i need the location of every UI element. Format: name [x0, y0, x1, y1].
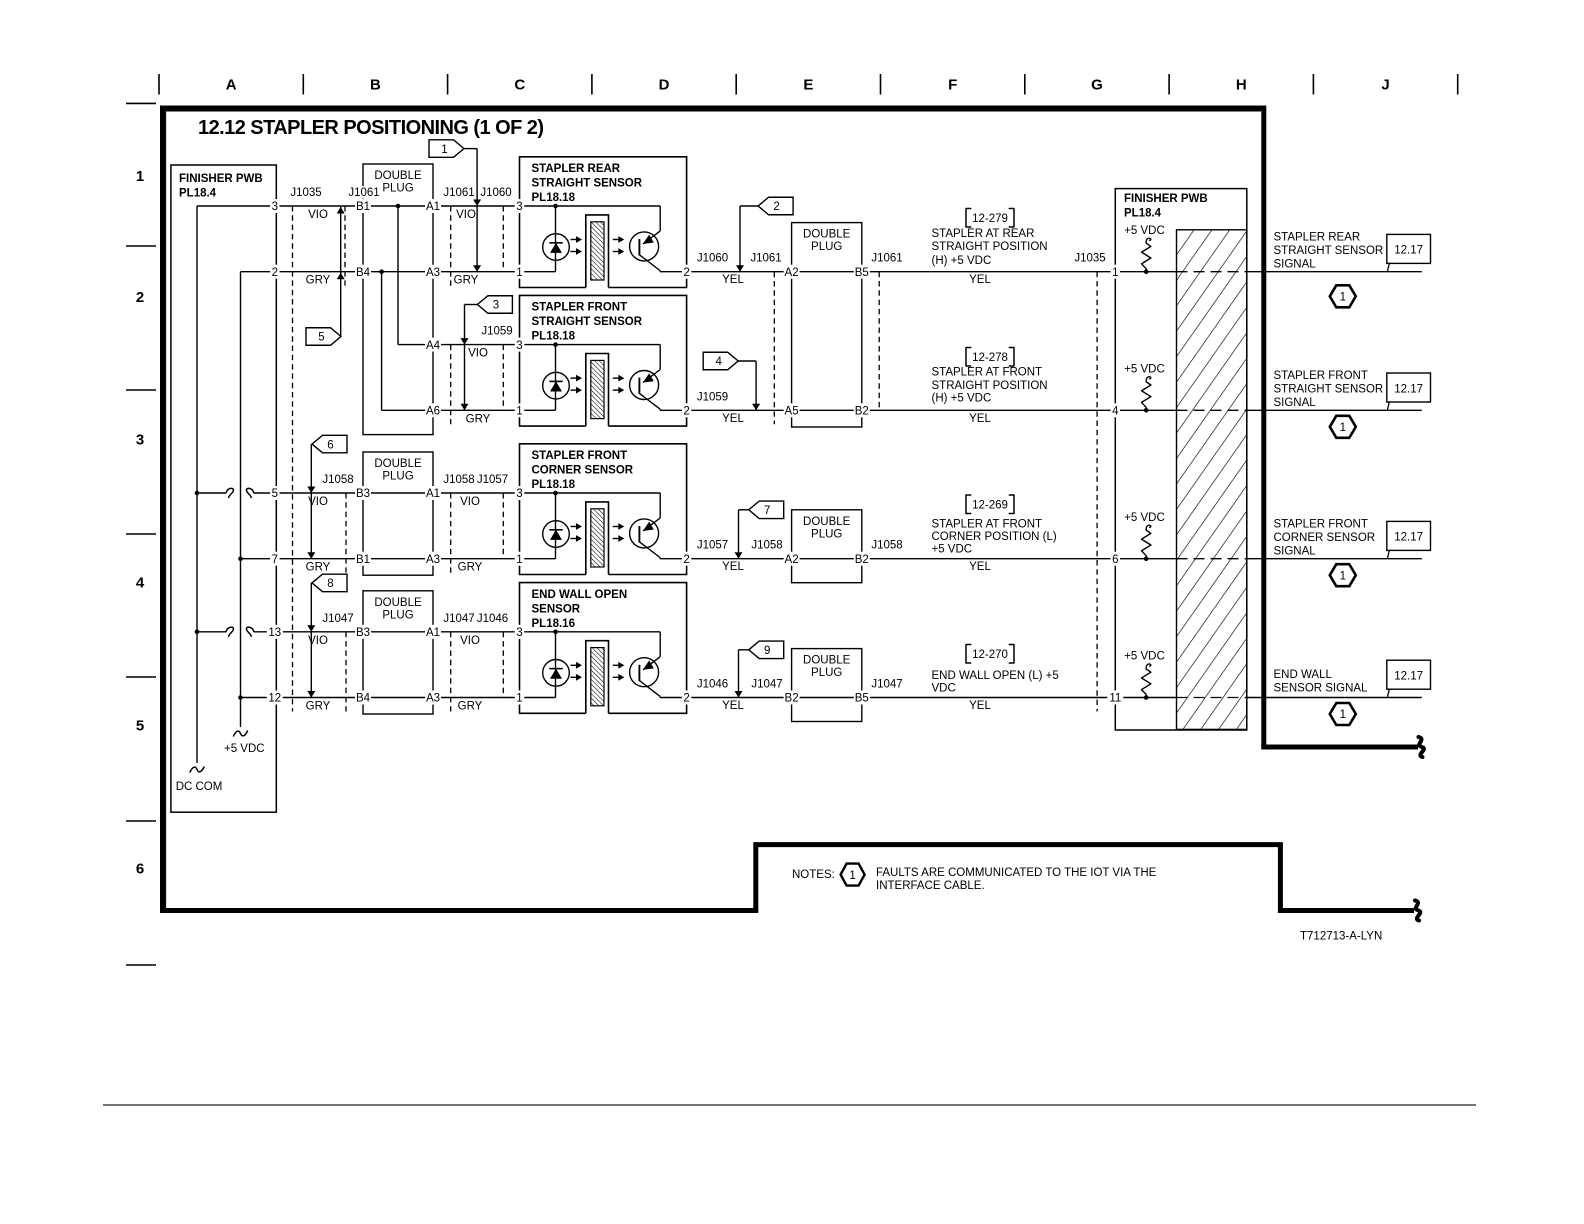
svg-text:T712713-A-LYN: T712713-A-LYN	[1300, 931, 1382, 943]
svg-text:A5: A5	[785, 406, 799, 418]
svg-text:J1061: J1061	[750, 253, 781, 265]
svg-text:12.17: 12.17	[1394, 245, 1423, 257]
svg-text:+5 VDC: +5 VDC	[224, 743, 265, 755]
svg-text:D: D	[659, 77, 670, 94]
svg-text:A2: A2	[785, 267, 799, 279]
svg-text:STAPLER REAR: STAPLER REAR	[1274, 232, 1361, 244]
svg-text:SIGNAL: SIGNAL	[1274, 546, 1317, 558]
svg-text:STRAIGHT POSITION: STRAIGHT POSITION	[932, 241, 1048, 253]
svg-text:PLUG: PLUG	[382, 609, 413, 621]
svg-text:GRY: GRY	[458, 701, 483, 713]
svg-text:SENSOR: SENSOR	[532, 603, 581, 615]
svg-text:FINISHER PWB: FINISHER PWB	[179, 173, 263, 185]
svg-text:8: 8	[327, 578, 333, 590]
svg-text:J1035: J1035	[1074, 253, 1105, 265]
svg-text:J1057: J1057	[697, 540, 728, 552]
svg-text:PLUG: PLUG	[811, 528, 842, 540]
svg-text:J1057: J1057	[477, 474, 508, 486]
svg-text:YEL: YEL	[969, 561, 991, 573]
svg-text:2: 2	[683, 267, 689, 279]
svg-text:B5: B5	[855, 693, 869, 705]
svg-text:7: 7	[272, 554, 278, 566]
svg-text:1: 1	[1340, 709, 1346, 721]
svg-text:STAPLER FRONT: STAPLER FRONT	[532, 302, 628, 314]
svg-text:CORNER POSITION (L): CORNER POSITION (L)	[932, 531, 1057, 543]
svg-text:1: 1	[516, 267, 522, 279]
svg-text:4: 4	[136, 575, 145, 592]
svg-text:SIGNAL: SIGNAL	[1274, 259, 1317, 271]
svg-text:STRAIGHT SENSOR: STRAIGHT SENSOR	[532, 178, 643, 190]
svg-text:A: A	[226, 77, 237, 94]
svg-text:4: 4	[1112, 406, 1119, 418]
svg-text:A3: A3	[426, 554, 440, 566]
svg-text:B5: B5	[855, 267, 869, 279]
svg-text:VIO: VIO	[308, 209, 328, 221]
svg-text:J1058: J1058	[443, 474, 474, 486]
svg-text:F: F	[948, 77, 957, 94]
svg-text:A1: A1	[426, 201, 440, 213]
svg-text:END WALL OPEN: END WALL OPEN	[532, 589, 628, 601]
svg-text:YEL: YEL	[969, 700, 991, 712]
svg-text:12.12 STAPLER POSITIONING (1 O: 12.12 STAPLER POSITIONING (1 OF 2)	[198, 117, 543, 139]
svg-text:YEL: YEL	[722, 561, 744, 573]
svg-text:12.17: 12.17	[1394, 671, 1423, 683]
svg-text:B3: B3	[356, 488, 370, 500]
svg-text:J1060: J1060	[697, 253, 728, 265]
svg-text:VDC: VDC	[932, 683, 956, 695]
svg-text:DOUBLE: DOUBLE	[803, 516, 851, 528]
svg-text:J1058: J1058	[871, 540, 902, 552]
svg-text:1: 1	[849, 870, 855, 882]
svg-text:A3: A3	[426, 693, 440, 705]
svg-text:NOTES:: NOTES:	[792, 869, 835, 881]
svg-text:1: 1	[516, 693, 522, 705]
svg-text:DOUBLE: DOUBLE	[374, 170, 422, 182]
svg-text:GRY: GRY	[454, 275, 479, 287]
svg-text:12-269: 12-269	[972, 500, 1008, 512]
svg-text:3: 3	[516, 340, 522, 352]
svg-text:PL18.4: PL18.4	[179, 188, 217, 200]
svg-text:DOUBLE: DOUBLE	[374, 597, 422, 609]
svg-text:PLUG: PLUG	[811, 241, 842, 253]
svg-text:11: 11	[1109, 693, 1121, 705]
svg-text:CORNER SENSOR: CORNER SENSOR	[1274, 532, 1376, 544]
svg-text:J1061: J1061	[348, 187, 379, 199]
svg-text:B4: B4	[356, 693, 371, 705]
svg-text:A1: A1	[426, 488, 440, 500]
svg-text:VIO: VIO	[460, 635, 480, 647]
svg-text:13: 13	[268, 627, 281, 639]
svg-text:(H) +5 VDC: (H) +5 VDC	[932, 255, 992, 267]
svg-text:1: 1	[516, 406, 522, 418]
svg-text:STAPLER FRONT: STAPLER FRONT	[1274, 370, 1368, 382]
svg-text:6: 6	[327, 439, 333, 451]
svg-text:J1046: J1046	[477, 613, 508, 625]
svg-text:1: 1	[1340, 422, 1346, 434]
svg-text:+5 VDC: +5 VDC	[1124, 225, 1165, 237]
svg-text:PL18.18: PL18.18	[532, 479, 576, 491]
svg-text:YEL: YEL	[722, 274, 744, 286]
svg-text:+5 VDC: +5 VDC	[1124, 363, 1165, 375]
svg-text:FAULTS ARE COMMUNICATED TO THE: FAULTS ARE COMMUNICATED TO THE IOT VIA T…	[876, 867, 1157, 879]
svg-text:STAPLER AT REAR: STAPLER AT REAR	[932, 228, 1035, 240]
svg-text:PL18.18: PL18.18	[532, 192, 576, 204]
svg-text:3: 3	[516, 488, 522, 500]
svg-text:5: 5	[318, 332, 324, 344]
svg-text:B2: B2	[785, 693, 799, 705]
svg-text:2: 2	[272, 267, 278, 279]
svg-text:GRY: GRY	[306, 701, 331, 713]
svg-text:1: 1	[136, 168, 144, 185]
svg-text:GRY: GRY	[458, 562, 483, 574]
svg-text:12.17: 12.17	[1394, 532, 1423, 544]
svg-text:VIO: VIO	[460, 496, 480, 508]
svg-text:12-270: 12-270	[972, 649, 1008, 661]
svg-text:B2: B2	[855, 554, 869, 566]
svg-text:END WALL OPEN (L) +5: END WALL OPEN (L) +5	[932, 670, 1059, 682]
svg-text:1: 1	[441, 144, 447, 156]
svg-text:C: C	[514, 77, 525, 94]
svg-text:GRY: GRY	[306, 275, 331, 287]
svg-text:DOUBLE: DOUBLE	[803, 655, 851, 667]
svg-text:2: 2	[683, 406, 689, 418]
svg-text:B: B	[370, 77, 381, 94]
svg-text:STAPLER REAR: STAPLER REAR	[532, 163, 621, 175]
svg-text:A1: A1	[426, 627, 440, 639]
svg-text:VIO: VIO	[456, 209, 476, 221]
svg-text:PL18.4: PL18.4	[1124, 208, 1162, 220]
svg-text:12-278: 12-278	[972, 352, 1008, 364]
svg-text:+5 VDC: +5 VDC	[1124, 651, 1165, 663]
svg-text:INTERFACE CABLE.: INTERFACE CABLE.	[876, 880, 985, 892]
svg-text:3: 3	[136, 432, 144, 449]
svg-text:J: J	[1381, 77, 1389, 94]
svg-text:A2: A2	[785, 554, 799, 566]
svg-text:YEL: YEL	[969, 413, 991, 425]
svg-text:GRY: GRY	[306, 562, 331, 574]
svg-text:PLUG: PLUG	[811, 667, 842, 679]
svg-text:VIO: VIO	[468, 348, 488, 360]
svg-text:J1035: J1035	[290, 187, 321, 199]
svg-text:PL18.16: PL18.16	[532, 618, 575, 630]
svg-text:STRAIGHT SENSOR: STRAIGHT SENSOR	[1274, 245, 1384, 257]
svg-text:J1061: J1061	[443, 187, 474, 199]
svg-text:12: 12	[268, 693, 281, 705]
svg-text:DOUBLE: DOUBLE	[803, 229, 851, 241]
svg-text:J1047: J1047	[322, 613, 353, 625]
svg-text:STAPLER FRONT: STAPLER FRONT	[1274, 519, 1368, 531]
svg-text:J1059: J1059	[481, 326, 512, 338]
svg-text:1: 1	[1112, 267, 1118, 279]
svg-text:J1058: J1058	[322, 474, 353, 486]
svg-text:12-279: 12-279	[972, 213, 1008, 225]
svg-text:5: 5	[136, 717, 144, 734]
svg-text:STAPLER AT FRONT: STAPLER AT FRONT	[932, 367, 1043, 379]
svg-text:J1047: J1047	[443, 613, 474, 625]
svg-text:G: G	[1091, 77, 1103, 94]
svg-text:4: 4	[715, 356, 722, 368]
svg-text:FINISHER PWB: FINISHER PWB	[1124, 193, 1208, 205]
svg-text:J1060: J1060	[480, 187, 511, 199]
svg-text:2: 2	[136, 289, 144, 306]
svg-text:A4: A4	[426, 340, 441, 352]
svg-text:3: 3	[493, 300, 499, 312]
svg-text:J1046: J1046	[697, 679, 728, 691]
svg-text:CORNER SENSOR: CORNER SENSOR	[532, 465, 634, 477]
svg-text:DOUBLE: DOUBLE	[374, 458, 422, 470]
svg-text:12.17: 12.17	[1394, 383, 1423, 395]
svg-text:5: 5	[272, 488, 278, 500]
svg-text:PLUG: PLUG	[382, 183, 413, 195]
svg-text:YEL: YEL	[722, 413, 744, 425]
svg-text:B3: B3	[356, 627, 370, 639]
svg-text:6: 6	[136, 860, 144, 877]
svg-text:B4: B4	[356, 267, 371, 279]
svg-text:STAPLER FRONT: STAPLER FRONT	[532, 450, 628, 462]
svg-text:3: 3	[516, 627, 522, 639]
svg-text:J1059: J1059	[697, 391, 728, 403]
svg-text:+5 VDC: +5 VDC	[932, 543, 973, 555]
svg-text:STAPLER AT FRONT: STAPLER AT FRONT	[932, 519, 1043, 531]
svg-text:A6: A6	[426, 406, 440, 418]
svg-text:1: 1	[1340, 570, 1346, 582]
svg-text:1: 1	[1340, 292, 1346, 304]
svg-text:J1061: J1061	[871, 253, 902, 265]
svg-text:END WALL: END WALL	[1274, 669, 1333, 681]
svg-text:B1: B1	[356, 554, 370, 566]
svg-text:H: H	[1236, 77, 1247, 94]
svg-text:2: 2	[683, 693, 689, 705]
svg-text:B2: B2	[855, 406, 869, 418]
svg-text:J1058: J1058	[751, 540, 782, 552]
svg-text:2: 2	[683, 554, 689, 566]
svg-text:PLUG: PLUG	[382, 471, 413, 483]
svg-text:3: 3	[272, 201, 278, 213]
svg-text:7: 7	[764, 505, 770, 517]
svg-text:(H) +5 VDC: (H) +5 VDC	[932, 393, 992, 405]
svg-text:B1: B1	[356, 201, 370, 213]
svg-text:E: E	[803, 77, 813, 94]
svg-text:J1047: J1047	[871, 679, 902, 691]
svg-text:GRY: GRY	[466, 413, 491, 425]
svg-text:YEL: YEL	[722, 700, 744, 712]
svg-text:YEL: YEL	[969, 274, 991, 286]
svg-text:6: 6	[1112, 554, 1118, 566]
svg-text:SENSOR SIGNAL: SENSOR SIGNAL	[1274, 683, 1369, 695]
svg-text:STRAIGHT POSITION: STRAIGHT POSITION	[932, 380, 1048, 392]
svg-text:9: 9	[764, 645, 770, 657]
svg-text:J1047: J1047	[751, 679, 782, 691]
svg-text:+5 VDC: +5 VDC	[1124, 512, 1165, 524]
svg-text:STRAIGHT SENSOR: STRAIGHT SENSOR	[1274, 384, 1384, 396]
svg-text:2: 2	[773, 201, 779, 213]
svg-text:1: 1	[516, 554, 522, 566]
svg-text:PL18.18: PL18.18	[532, 331, 576, 343]
svg-text:3: 3	[516, 201, 522, 213]
svg-text:A3: A3	[426, 267, 440, 279]
svg-text:SIGNAL: SIGNAL	[1274, 397, 1317, 409]
svg-text:DC COM: DC COM	[176, 781, 223, 793]
svg-text:STRAIGHT SENSOR: STRAIGHT SENSOR	[532, 316, 643, 328]
